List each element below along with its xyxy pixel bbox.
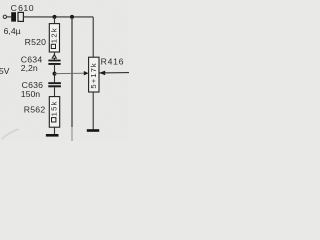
wire: R416 to ground [92,92,94,129]
svg-text:5+17k: 5+17k [89,62,98,88]
node junction to wiper line [53,72,57,76]
svg-text:15k: 15k [50,100,59,116]
svg-text:R520: R520 [25,37,47,47]
wire: C636 to R562 [54,87,56,96]
wire + wiper arrowhead right into R416 [99,72,129,74]
svg-text:5V: 5V [0,66,10,76]
paper background [0,0,129,141]
node junction at middle vertical line [70,15,74,19]
wire: R562 to ground [54,127,56,134]
ground bar under R562 [46,134,59,137]
wire: main horizontal rail y=17 [23,16,93,18]
test point triangle marker [51,54,57,59]
capacitor C636 [48,82,61,87]
svg-text:12k: 12k [49,27,58,43]
terminal node (open circle input) [3,15,6,18]
capacitor C634 [48,60,60,65]
resistor R562 [49,97,59,128]
wiper arrowhead left into R416 [84,71,89,75]
wire: middle vertical line (cut off at bottom) [71,17,73,127]
wire: rail corner down to R416 [92,17,94,57]
svg-text:R416: R416 [101,57,125,67]
wire: junction dot to R520 [54,17,56,24]
capacitor C610 (electrolytic, filled + hollow plate) [11,12,23,21]
wire: wiper line from junction toward R416 [55,72,85,74]
resistor R520 [49,24,59,52]
svg-text:R562: R562 [24,105,46,115]
svg-text:150n: 150n [21,89,40,99]
ground bar under R416 [87,129,99,132]
svg-text:2,2n: 2,2n [21,63,38,73]
wire: R520 to C634 [54,52,56,60]
svg-text:6,4µ: 6,4µ [4,26,21,36]
wire: C634 to C636 [54,65,56,83]
svg-text:C610: C610 [11,3,34,13]
node junction at R520 branch [53,15,57,19]
resistor R416 (potentiometer) [89,57,99,92]
wire from terminal to C610 [7,16,12,18]
